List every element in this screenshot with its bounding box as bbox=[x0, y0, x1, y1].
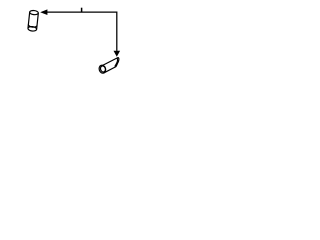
callout tick mark on leader line bbox=[81, 8, 83, 12]
roller 2 open end outer ellipse bbox=[98, 64, 107, 74]
roller 1 right side bbox=[37, 13, 39, 29]
arrowhead pointing left at roller 1 bbox=[40, 9, 47, 15]
leader line from roller 1 with corner down to roller 2 bbox=[47, 12, 117, 51]
roller 2 open end inner rim ellipse bbox=[100, 65, 106, 72]
roller 2 far end cap arc bbox=[116, 57, 119, 66]
roller 2 rim band arc bbox=[115, 58, 118, 66]
roller item 1 (upper left, standing cylinder) bbox=[28, 10, 39, 31]
roller 2 top edge bbox=[103, 57, 119, 65]
roller 1 bottom cap ellipse bbox=[28, 26, 37, 31]
roller 1 left side bbox=[28, 12, 30, 28]
roller 1 rim band arc bbox=[28, 24, 37, 27]
roller 1 top cap ellipse bbox=[29, 10, 38, 15]
roller item 2 (lower right, tilted cylinder) bbox=[98, 57, 119, 74]
arrowhead pointing down at roller 2 bbox=[114, 51, 121, 57]
roller 2 bottom edge bbox=[104, 67, 116, 73]
